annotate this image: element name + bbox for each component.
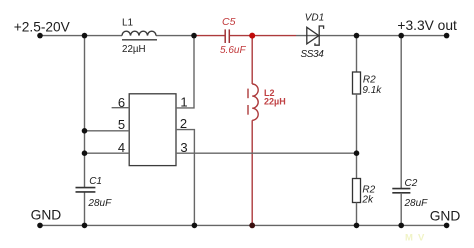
wire: R2 2k upper lead from feedback node (356, 153, 358, 178)
resistor R2 9.1k (353, 72, 361, 94)
wire: top rail input segment from +2.5-20V terminal to L1 (40, 35, 122, 37)
svg-text:28uF: 28uF (87, 198, 112, 209)
wire: pin 1 up to top rail (176, 36, 194, 108)
svg-text:C2: C2 (405, 178, 418, 189)
inductor L1 (122, 31, 157, 40)
wire: left vertical from top rail down to C1 top plate (84, 36, 86, 188)
capacitor C1 (76, 188, 96, 192)
node: input terminal dot (37, 33, 43, 39)
node: ground rail / L2 junction (249, 223, 255, 229)
node: pin4 / left vertical junction (82, 150, 88, 156)
svg-text:2k: 2k (361, 194, 374, 205)
svg-text:5: 5 (118, 117, 125, 132)
svg-text:22µH: 22µH (122, 44, 146, 55)
wire: top rail from VD1 cathode to +3.3V out terminal (319, 35, 447, 37)
svg-text:2: 2 (180, 116, 187, 131)
node: top rail / pin1 junction (191, 33, 197, 39)
inductor L2 (red, vertical) (248, 36, 258, 226)
node: pin5 / left vertical junction (82, 128, 88, 134)
node: ground rail / R2 2k junction (354, 223, 360, 229)
wire: pin 3 feedback line to divider midpoint (176, 152, 357, 154)
svg-text:GND: GND (430, 208, 461, 223)
svg-text:1: 1 (180, 95, 187, 110)
wire: red segment from pin1 node to C5 left plate (194, 35, 225, 37)
wire: pin 2 down to bottom rail (176, 130, 194, 226)
wire: bottom ground rail (40, 224, 447, 226)
svg-text:3: 3 (180, 140, 187, 155)
wire: R2 9.1k lower lead to feedback node (356, 94, 358, 153)
wire: top rail from L1 to pin1 node (156, 35, 194, 37)
node: top rail / C2 junction (398, 33, 404, 39)
pin 6 stub (floating) (112, 107, 130, 109)
svg-text:4: 4 (118, 140, 125, 155)
node: +3.3V out terminal dot (444, 33, 450, 39)
wire: R2 2k lower lead to ground rail (356, 203, 358, 226)
svg-text:SS34: SS34 (301, 49, 325, 60)
svg-text:M V: M V (405, 232, 426, 243)
op-amp/converter IC U1 body (129, 94, 176, 166)
node: ground terminal left dot (37, 223, 43, 229)
svg-text:6: 6 (118, 95, 125, 110)
wire: C2 branch from top rail (400, 36, 402, 189)
node: ground rail / pin2 junction (192, 223, 198, 229)
svg-text:9.1k: 9.1k (362, 85, 382, 96)
svg-text:+3.3V out: +3.3V out (397, 18, 457, 33)
svg-text:C5: C5 (222, 16, 236, 28)
wire: gray segment from red transition into diode VD1 anode (296, 35, 319, 37)
svg-text:GND: GND (31, 207, 62, 222)
node: ground rail / C2 junction (398, 223, 404, 229)
svg-text:+2.5-20V: +2.5-20V (14, 19, 71, 34)
node: feedback divider midpoint (354, 150, 360, 156)
wire: pin 5 to left vertical (85, 130, 130, 132)
capacitor C5 (225, 29, 229, 43)
node: top rail / R2 junction (354, 33, 360, 39)
wire: R2 upper branch from top rail (356, 36, 358, 72)
diode VD1 (Schottky SS34) (307, 26, 324, 45)
wire: left vertical from C1 bottom plate to bottom rail (84, 192, 86, 225)
wire: pin 4 to left vertical (85, 152, 130, 154)
svg-text:L1: L1 (122, 17, 134, 28)
svg-text:VD1: VD1 (305, 13, 324, 24)
svg-text:C1: C1 (89, 176, 102, 187)
node: top rail / left vertical junction (82, 33, 88, 39)
node: ground rail / C1 junction (82, 223, 88, 229)
wire: C2 lower lead to ground rail (400, 193, 402, 226)
wire: red segment from C5 right plate to L2 node and onward toward VD1 (230, 35, 296, 37)
resistor R2 2k (353, 179, 361, 203)
node: red L2 top junction (249, 33, 255, 39)
svg-text:28uF: 28uF (404, 198, 429, 209)
node: ground terminal right dot (444, 223, 450, 229)
svg-text:22µH: 22µH (264, 97, 286, 107)
capacitor C2 (392, 189, 410, 193)
svg-text:5.6uF: 5.6uF (220, 45, 246, 56)
